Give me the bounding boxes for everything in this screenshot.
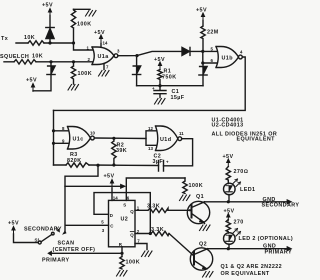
wire U1a output (118, 51, 203, 55)
svg-text:+: + (166, 160, 169, 165)
svg-text:10K: 10K (24, 35, 35, 41)
resistor 3.3K (Q1 base) (148, 208, 168, 212)
svg-text:PRIMARY: PRIMARY (265, 249, 292, 255)
wire (49, 16, 51, 44)
wire Q2 collector to GND PRIMARY line (208, 248, 288, 250)
svg-text:SQUELCH: SQUELCH (0, 54, 29, 60)
node 22M junction (201, 50, 204, 53)
op-amp U1b (NOR gate) (216, 47, 239, 68)
wire to U1b pins (203, 51, 217, 63)
svg-text:SCAN: SCAN (58, 241, 75, 247)
resistor 100K (R pulldown) (120, 253, 124, 269)
svg-text:3.3K: 3.3K (147, 203, 160, 209)
wire U2 Q output (135, 209, 190, 211)
svg-text:14: 14 (103, 40, 108, 45)
svg-text:SECONDARY: SECONDARY (262, 203, 300, 209)
ground (Q2 emitter) (203, 272, 214, 278)
svg-text:100K: 100K (126, 260, 141, 266)
svg-text:+5V: +5V (104, 173, 115, 179)
svg-text:12: 12 (148, 126, 153, 131)
svg-text:820K: 820K (67, 158, 82, 164)
op-amp U1a (NOR gate) (92, 47, 114, 65)
svg-text:Q1 & Q2 ARE 2N2222: Q1 & Q2 ARE 2N2222 (221, 264, 283, 270)
diode D2 (136, 56, 138, 66)
svg-text:3µF: 3µF (153, 159, 164, 165)
wire U2 pin 7 (135, 244, 147, 250)
diode D3 (199, 67, 207, 75)
svg-text:EQUIVALENT: EQUIVALENT (237, 137, 276, 143)
op-amp U1d (NOR gate) (156, 126, 178, 151)
ground (R 100K) (117, 271, 128, 277)
svg-text:S: S (123, 203, 126, 208)
wire bottom rail (D2-C1-D3) (137, 85, 203, 87)
resistor 100K (squelch pulldown) (71, 62, 75, 84)
svg-text:13: 13 (148, 146, 153, 151)
resistor R2 39K (112, 138, 116, 165)
svg-text:39K: 39K (116, 148, 127, 154)
ground (Q1 emitter) (204, 222, 205, 224)
resistor 10K (squelch) (14, 60, 36, 64)
svg-text:+5V: +5V (42, 3, 53, 9)
svg-text:11: 11 (179, 131, 184, 136)
ground (below squelch 100K) (68, 85, 79, 91)
node squelch/diode junction (49, 60, 52, 63)
wire U2 pin6 pullup (126, 178, 185, 200)
wire clock trace (65, 165, 109, 231)
svg-text:U1b: U1b (222, 56, 234, 62)
wire U1d input stem (146, 131, 156, 146)
svg-text:270Ω: 270Ω (234, 169, 249, 175)
svg-text:750K: 750K (162, 75, 177, 81)
diode D5 (46, 27, 54, 29)
wire (33, 62, 51, 91)
resistor 100K (pullup to chassis gnd, top) (71, 9, 75, 43)
wire line B (secondary to S pin) (65, 185, 121, 187)
svg-text:PRIMARY: PRIMARY (42, 258, 69, 264)
diode D6 (47, 66, 55, 74)
svg-text:+5V: +5V (26, 78, 37, 84)
svg-text:100K: 100K (189, 183, 204, 189)
svg-text:3.3K: 3.3K (151, 227, 164, 233)
ground (C1) (155, 99, 166, 105)
svg-text:+5V: +5V (224, 208, 235, 214)
wire to top ground (74, 8, 91, 10)
svg-text:D: D (110, 213, 113, 218)
svg-text:Tx: Tx (1, 36, 8, 42)
transistor Q2 (190, 248, 212, 270)
switch blade (41, 234, 52, 242)
node (135, 54, 138, 57)
svg-text:Q2: Q2 (199, 242, 207, 248)
node clock tap (96, 164, 99, 167)
wire U1b output feedback (54, 57, 246, 110)
transistor Q1 (187, 201, 209, 223)
resistor 100K (pin 6) (183, 178, 187, 194)
svg-text:10: 10 (90, 131, 95, 136)
svg-text:14: 14 (113, 195, 118, 200)
ground (pin6 100K) (180, 195, 191, 201)
svg-text:U1c: U1c (73, 137, 84, 143)
wire U2 R pin (121, 247, 123, 254)
op-amp U1c (NOR gate) (68, 127, 91, 150)
wire U1c out (94, 137, 146, 140)
ground (U1a pin 7) (103, 64, 105, 69)
svg-text:LED 2 (OPTIONAL): LED 2 (OPTIONAL) (239, 236, 294, 242)
wire U1c input stem (53, 110, 55, 165)
wire Q1 collector to GND SECONDARY line (205, 201, 288, 203)
svg-text:Q: Q (130, 209, 134, 214)
svg-text:10K: 10K (32, 54, 43, 60)
svg-text:+5V: +5V (196, 8, 207, 14)
wire oscillator rail (54, 164, 159, 167)
resistor R1 750K (158, 70, 162, 86)
resistor 10K (Tx) (28, 41, 44, 45)
svg-text:U2-CD4013: U2-CD4013 (212, 122, 244, 128)
capacitor C1 15uF (154, 86, 166, 98)
wire U1d out to C2 (164, 139, 193, 166)
svg-text:+5V: +5V (94, 30, 105, 36)
wire D feedback (94, 193, 150, 234)
svg-text:U1a: U1a (98, 54, 110, 60)
LED D LED2 (224, 233, 236, 245)
wire to U1a pin1 (74, 43, 93, 50)
resistor R3 820K (66, 163, 89, 167)
svg-text:100K: 100K (78, 71, 93, 77)
node junction 100K/Tx (72, 41, 75, 44)
svg-text:22M: 22M (207, 30, 219, 36)
svg-text:(CENTER OFF): (CENTER OFF) (53, 247, 96, 253)
wire U2 Qbar output (135, 234, 194, 257)
svg-text:+: + (152, 86, 155, 91)
wire SQUELCH (4, 61, 93, 63)
svg-text:15µF: 15µF (171, 95, 185, 101)
wire Tx input (16, 42, 74, 44)
svg-text:270: 270 (234, 219, 244, 225)
svg-text:S1: S1 (35, 238, 41, 243)
capacitor C2 3uF (159, 161, 164, 172)
svg-text:LED1: LED1 (240, 187, 255, 193)
diode D1 (182, 47, 190, 55)
resistor 3.3K (Q2 base) (151, 231, 169, 235)
svg-text:Q1: Q1 (196, 194, 204, 200)
node Tx/diode junction (48, 41, 51, 44)
wire secondary arrowhead (63, 231, 66, 234)
svg-text:OR EQUIVALENT: OR EQUIVALENT (221, 271, 270, 277)
svg-text:U1d: U1d (160, 137, 171, 143)
LED D LED1 (224, 183, 236, 195)
svg-text:Q: Q (130, 233, 134, 238)
ground (U2 pin 7) (142, 251, 153, 257)
ground (top right of 100K) (86, 11, 97, 17)
svg-text:100K: 100K (77, 22, 92, 28)
IC U2 CD4013 (109, 200, 136, 246)
svg-text:U2: U2 (121, 217, 129, 223)
